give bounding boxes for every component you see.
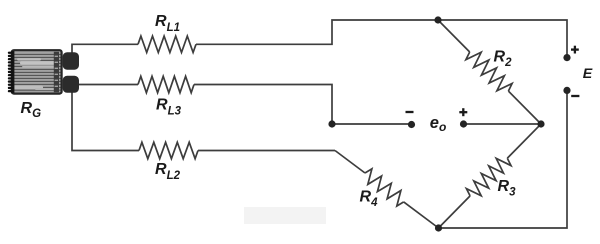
svg-text:R3: R3 [498, 178, 517, 199]
svg-text:E: E [583, 66, 593, 82]
svg-text:eo: eo [430, 114, 447, 134]
svg-text:RL1: RL1 [155, 13, 180, 34]
svg-text:RL3: RL3 [156, 97, 182, 118]
svg-text:R4: R4 [360, 189, 379, 210]
svg-text:RG: RG [21, 100, 42, 120]
svg-text:RL2: RL2 [155, 161, 181, 182]
svg-text:R2: R2 [494, 48, 513, 69]
